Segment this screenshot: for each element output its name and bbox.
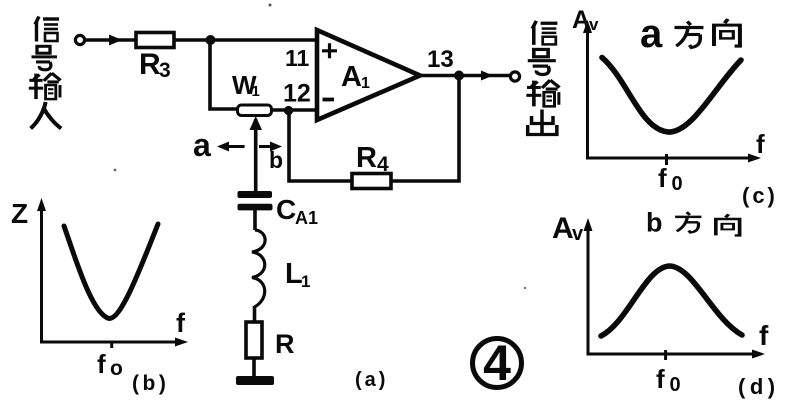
svg-text:A: A	[572, 6, 590, 34]
svg-text:(a): (a)	[355, 369, 388, 391]
svg-text:b: b	[646, 208, 663, 238]
svg-text:Z: Z	[11, 198, 28, 229]
svg-text:f: f	[658, 163, 667, 193]
svg-text:A: A	[552, 212, 574, 245]
svg-text:o: o	[110, 357, 123, 380]
svg-text:f: f	[176, 308, 186, 338]
svg-text:v: v	[572, 223, 584, 245]
svg-text:f: f	[97, 349, 106, 379]
svg-text:R: R	[139, 48, 161, 81]
svg-text:b: b	[269, 147, 283, 173]
svg-text:A1: A1	[295, 208, 318, 228]
svg-text:0: 0	[670, 374, 681, 396]
svg-text:a: a	[193, 127, 211, 163]
svg-text:R: R	[275, 329, 295, 359]
svg-text:1: 1	[301, 272, 310, 291]
svg-text:(b): (b)	[132, 372, 169, 395]
svg-text:C: C	[276, 194, 296, 225]
svg-text:R: R	[356, 142, 377, 174]
svg-text:13: 13	[427, 46, 454, 73]
svg-text:a: a	[640, 12, 663, 56]
svg-text:4: 4	[377, 153, 389, 176]
svg-text:f: f	[759, 320, 769, 351]
svg-text:1: 1	[252, 83, 260, 100]
svg-text:4: 4	[483, 335, 511, 391]
svg-text:f: f	[756, 129, 765, 159]
svg-text:(d): (d)	[738, 374, 780, 399]
svg-text:3: 3	[159, 59, 171, 82]
svg-text:A: A	[341, 61, 362, 93]
svg-text:12: 12	[283, 80, 311, 108]
svg-text:0: 0	[672, 173, 683, 195]
svg-text:11: 11	[285, 45, 310, 71]
svg-text:(c): (c)	[742, 183, 778, 208]
svg-text:v: v	[589, 15, 599, 34]
svg-text:1: 1	[361, 75, 370, 92]
svg-text:f: f	[656, 364, 665, 394]
